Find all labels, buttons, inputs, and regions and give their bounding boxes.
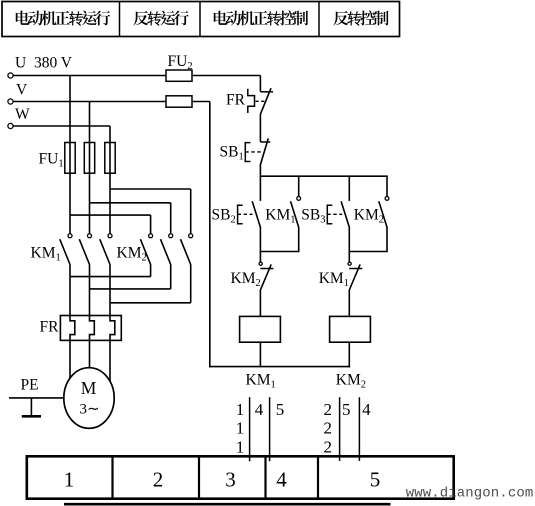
contactor KM1 pole3 bbox=[108, 234, 112, 238]
svg-text:V: V bbox=[16, 82, 28, 99]
SB1 plunger dashes bbox=[245, 151, 262, 153]
header cell text: motor forward control bbox=[214, 11, 228, 25]
wire number line a bbox=[249, 397, 251, 461]
svg-text:2: 2 bbox=[153, 468, 164, 492]
SB1 NC contact bbox=[260, 141, 270, 143]
wire to coil KM2 bbox=[348, 290, 350, 317]
contactor KM1 pole2 bbox=[88, 234, 92, 238]
pushbutton SB2 contact bbox=[259, 176, 261, 201]
motor M circle bbox=[64, 368, 114, 429]
svg-text:PE: PE bbox=[21, 377, 39, 394]
svg-text:3: 3 bbox=[225, 468, 236, 492]
svg-text:5: 5 bbox=[342, 400, 351, 419]
header cell text: reverse control bbox=[333, 11, 348, 25]
svg-text:5: 5 bbox=[370, 468, 381, 492]
wire KM1 pole3 out bbox=[109, 264, 111, 316]
control bottom bus bbox=[209, 366, 350, 368]
fuse FU2b bbox=[166, 96, 192, 107]
wire number line c bbox=[339, 397, 341, 461]
wire KM2 pole2 out bbox=[170, 264, 172, 289]
svg-text:1: 1 bbox=[236, 438, 245, 457]
svg-text:3∼: 3∼ bbox=[79, 401, 99, 417]
bottom table divider 1 bbox=[111, 456, 113, 498]
SB2 button actuator bbox=[238, 205, 243, 224]
fuse FU1c bbox=[109, 143, 111, 174]
wire phase U after fuse bbox=[192, 75, 260, 77]
SB2 plunger dashes bbox=[238, 213, 253, 215]
contactor KM2 pole1 bbox=[149, 234, 153, 238]
SB3 plunger dashes bbox=[327, 213, 342, 215]
wire KM2 aux lower bbox=[386, 227, 388, 252]
SB1 button actuator bbox=[245, 143, 250, 162]
wire W drop bbox=[109, 126, 111, 143]
wire FR to motor 2 bbox=[89, 340, 91, 368]
contactor KM2 pole2 bbox=[169, 234, 173, 238]
wire KM1 pole1 out bbox=[69, 264, 71, 316]
coil KM1 bbox=[240, 316, 281, 342]
wire KM2 pole1 out bbox=[150, 264, 152, 276]
header table frame bbox=[2, 2, 400, 37]
wire V to KM2 pole2 bbox=[90, 202, 171, 204]
wire phase W bbox=[13, 125, 110, 127]
bottom table divider 3 bbox=[264, 456, 266, 498]
svg-text:1: 1 bbox=[64, 468, 75, 492]
wire to coil KM1 bbox=[259, 290, 261, 317]
contact KM2 aux bbox=[386, 176, 388, 196]
bottom table frame bbox=[27, 456, 454, 498]
contactor KM2 pole3 bbox=[189, 234, 193, 238]
control right rail top bbox=[259, 76, 261, 92]
contactor KM1 pole1 bbox=[68, 234, 72, 238]
wire KM1 aux lower bbox=[298, 227, 300, 252]
branch2 join bus bbox=[349, 251, 388, 253]
wire FR to motor 3 bbox=[109, 340, 111, 382]
wire U to KM2 pole1 bbox=[70, 214, 151, 216]
header cell text: reverse run bbox=[133, 11, 148, 25]
wire KM1 pole2 out bbox=[89, 264, 91, 316]
interlock contact KM1 NC bbox=[348, 252, 350, 262]
coil KM2 bbox=[330, 316, 371, 342]
wire number line b bbox=[269, 397, 271, 461]
svg-text:www.diangon.com: www.diangon.com bbox=[406, 485, 534, 501]
wire KM2 pole3 out bbox=[190, 264, 192, 303]
wire number line d bbox=[358, 397, 360, 461]
wire SB1 to bus bbox=[259, 164, 261, 176]
FR heater pole1 bbox=[70, 316, 75, 341]
FR heater pole2 bbox=[90, 316, 95, 341]
wire V to KM1 pole2 bbox=[89, 173, 91, 233]
svg-text:W: W bbox=[15, 106, 30, 123]
wire phase V after fuse bbox=[192, 101, 210, 103]
bottom table divider 2 bbox=[198, 456, 200, 498]
lower edge line bbox=[64, 503, 391, 506]
wire coil KM1 to bus bbox=[259, 342, 261, 367]
interlock contact KM2 NC bbox=[259, 252, 261, 262]
header table divider 1 bbox=[119, 2, 121, 37]
SB3 button actuator bbox=[327, 205, 332, 224]
ground PE symbol bbox=[30, 398, 32, 416]
terminal V bbox=[8, 99, 13, 104]
control bus bbox=[260, 175, 388, 177]
svg-text:2: 2 bbox=[323, 400, 332, 419]
svg-text:5: 5 bbox=[276, 400, 285, 419]
fuse FU1b bbox=[89, 143, 91, 174]
branch1 join bus bbox=[260, 251, 300, 253]
header table divider 3 bbox=[318, 2, 320, 37]
FR actuator link dashes bbox=[256, 100, 265, 102]
wire W to KM2 pole3 bbox=[110, 188, 191, 190]
fuse FU1a bbox=[69, 143, 71, 174]
FR trip actuator bbox=[248, 89, 255, 113]
svg-text:FR: FR bbox=[40, 319, 60, 336]
control left rail bbox=[209, 102, 211, 368]
contact KM1 aux bbox=[298, 176, 300, 196]
header table divider 2 bbox=[199, 2, 201, 37]
wire phase V bbox=[13, 101, 166, 103]
wire PE bbox=[9, 397, 64, 399]
svg-text:4: 4 bbox=[362, 400, 371, 419]
wire coil KM2 to bus bbox=[348, 342, 350, 367]
wire U drop bbox=[69, 76, 71, 143]
svg-text:4: 4 bbox=[255, 400, 264, 419]
wire SB3 lower bbox=[348, 227, 350, 252]
wire FR to motor 1 bbox=[69, 340, 71, 379]
terminal W bbox=[8, 123, 13, 128]
wire W to KM1 pole3 bbox=[109, 173, 111, 233]
bottom table divider 4 bbox=[317, 456, 319, 498]
thermal relay FR box bbox=[60, 316, 121, 341]
wire U to KM1 pole1 bbox=[69, 173, 71, 233]
svg-text:2: 2 bbox=[323, 419, 332, 438]
wire FR to SB1 bbox=[259, 114, 261, 142]
wire V drop bbox=[89, 102, 91, 143]
svg-text:FR: FR bbox=[226, 92, 246, 109]
svg-text:M: M bbox=[81, 378, 97, 398]
wire SB2 lower bbox=[259, 227, 261, 252]
wire phase U bbox=[13, 75, 166, 77]
svg-text:1: 1 bbox=[236, 419, 245, 438]
pushbutton SB3 contact bbox=[348, 176, 350, 201]
svg-text:2: 2 bbox=[323, 438, 332, 457]
header cell text: motor forward run bbox=[16, 11, 30, 25]
terminal U bbox=[8, 73, 13, 78]
svg-text:1: 1 bbox=[236, 400, 245, 419]
fuse FU2a bbox=[166, 70, 192, 81]
FR heater pole3 bbox=[110, 316, 115, 341]
svg-text:4: 4 bbox=[276, 468, 287, 492]
FR NC contact bbox=[260, 91, 273, 93]
svg-text:U 380 V: U 380 V bbox=[15, 55, 73, 72]
